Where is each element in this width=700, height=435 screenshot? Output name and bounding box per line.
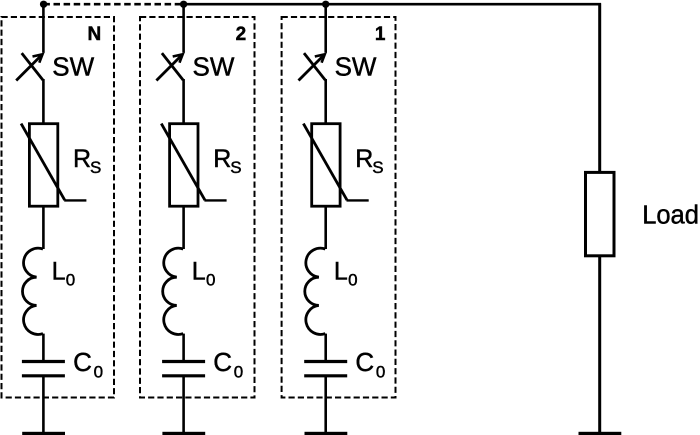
varistor RS (N) body — [29, 124, 57, 207]
switch SW (2) blade with arrow — [156, 56, 181, 81]
capacitor C0 (N) bottom plate — [22, 374, 65, 377]
cell 2 dashed boundary box — [140, 17, 255, 398]
wire: top bus to switch 2 — [182, 3, 185, 53]
svg-text:0: 0 — [234, 362, 243, 381]
svg-text:S: S — [230, 158, 241, 177]
wire: varistor to inductor 2 — [182, 206, 185, 249]
load resistor body — [586, 172, 615, 255]
svg-text:SW: SW — [193, 52, 235, 82]
junction node 2 — [180, 1, 187, 8]
wire: inductor to capacitor 2 — [182, 334, 185, 361]
wire: switch to varistor 1 — [324, 79, 327, 123]
varistor RS (2) body — [170, 124, 198, 207]
varistor RS (1) horizontal tail — [347, 199, 369, 201]
wire: switch to varistor 2 — [182, 79, 185, 123]
svg-text:0: 0 — [376, 362, 385, 381]
varistor RS (N) diagonal stroke — [21, 124, 65, 201]
inductor L0 (2) coil — [163, 248, 184, 334]
varistor RS (N) horizontal tail — [64, 199, 86, 201]
ground symbol (2) — [162, 432, 205, 435]
svg-text:SW: SW — [335, 52, 377, 82]
inductor L0 (1) coil — [305, 248, 326, 334]
svg-text:1: 1 — [375, 24, 386, 45]
capacitor C0 (N) top plate — [22, 360, 65, 363]
switch SW (1) blade with arrow — [299, 56, 324, 81]
capacitor C0 (1) bottom plate — [304, 374, 347, 377]
svg-text:L: L — [192, 258, 206, 286]
wire: capacitor to ground 1 — [324, 377, 327, 433]
varistor RS (1) body — [312, 124, 340, 207]
wire: switch to varistor N — [42, 79, 45, 123]
svg-text:L: L — [334, 258, 348, 286]
wire: capacitor to ground N — [42, 377, 45, 433]
wire: dashed bus segment node N to node 2 — [43, 3, 183, 6]
capacitor C0 (2) bottom plate — [162, 374, 205, 377]
svg-text:Load: Load — [642, 201, 699, 229]
ground symbol (1) — [305, 432, 348, 435]
svg-text:C: C — [355, 347, 374, 377]
varistor RS (1) diagonal stroke — [303, 124, 347, 201]
svg-text:SW: SW — [52, 52, 94, 82]
inductor L0 (N) coil — [22, 248, 43, 334]
switch SW (N) blade with arrow — [16, 56, 41, 81]
wire: inductor to capacitor 1 — [324, 334, 327, 361]
svg-text:0: 0 — [348, 270, 357, 289]
wire: solid bus segment node 2 to right corner — [184, 3, 601, 6]
cell N dashed boundary box — [2, 17, 115, 398]
svg-text:N: N — [87, 24, 101, 45]
svg-text:R: R — [355, 145, 373, 173]
wire: capacitor to ground 2 — [182, 377, 185, 433]
wire: load to ground — [598, 256, 601, 432]
varistor RS (2) horizontal tail — [204, 199, 226, 201]
ground symbol (N) — [22, 432, 65, 435]
wire: top bus to switch N — [42, 3, 45, 53]
wire: top bus to switch 1 — [324, 3, 327, 53]
svg-text:0: 0 — [206, 270, 215, 289]
junction node 1 — [322, 1, 329, 8]
svg-text:S: S — [372, 158, 383, 177]
wire: varistor to inductor 1 — [324, 206, 327, 249]
switch SW (N) cross contact line — [22, 53, 43, 80]
svg-text:S: S — [90, 158, 101, 177]
switch SW (2) cross contact line — [162, 53, 183, 80]
capacitor C0 (1) top plate — [304, 360, 347, 363]
wire: inductor to capacitor N — [42, 334, 45, 361]
svg-text:2: 2 — [236, 24, 247, 45]
svg-text:R: R — [213, 145, 231, 173]
svg-text:0: 0 — [66, 270, 75, 289]
svg-text:0: 0 — [94, 362, 103, 381]
svg-text:L: L — [52, 258, 66, 286]
junction node N — [40, 1, 47, 8]
svg-text:C: C — [213, 347, 232, 377]
wire: varistor to inductor N — [42, 206, 45, 249]
switch SW (1) cross contact line — [304, 53, 325, 80]
ground symbol (load) — [579, 432, 622, 435]
svg-text:C: C — [73, 347, 92, 377]
wire: bus corner down to load — [598, 3, 601, 172]
capacitor C0 (2) top plate — [162, 360, 205, 363]
svg-text:R: R — [73, 145, 91, 173]
cell 1 dashed boundary box — [282, 17, 396, 398]
varistor RS (2) diagonal stroke — [161, 124, 205, 201]
